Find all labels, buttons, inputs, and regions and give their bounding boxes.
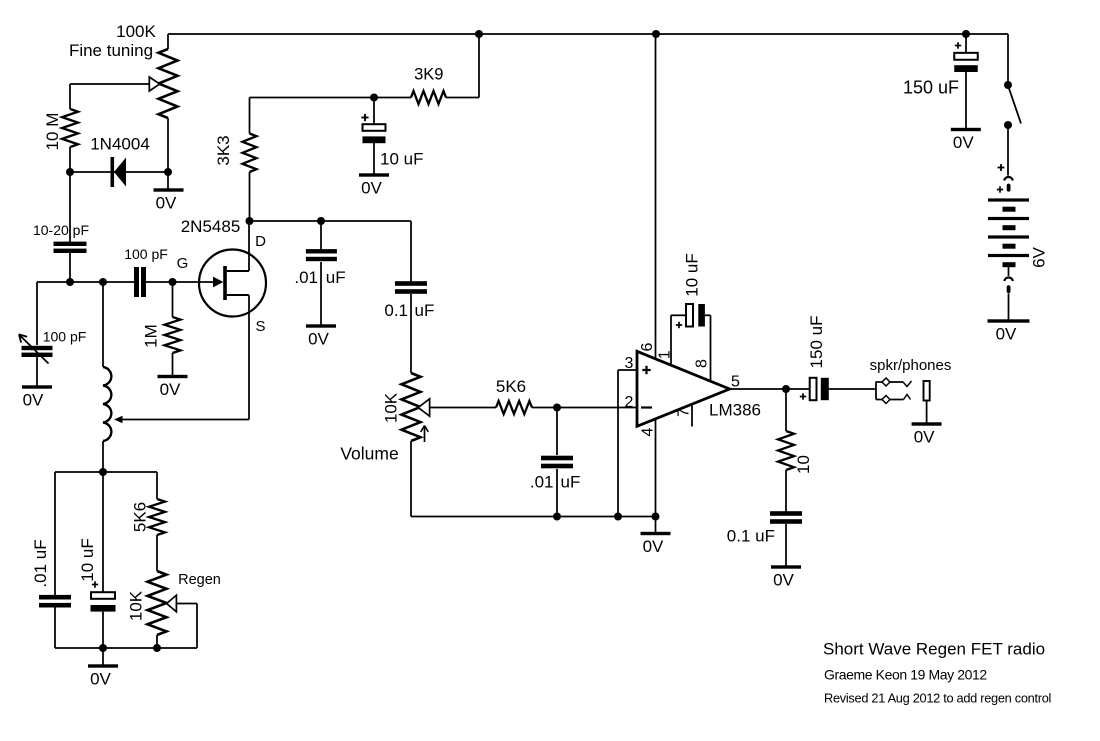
- svg-text:uF: uF: [561, 473, 581, 492]
- svg-text:3K9: 3K9: [414, 66, 443, 84]
- svg-text:Graeme Keon 19 May 2012: Graeme Keon 19 May 2012: [824, 667, 987, 683]
- svg-text:150 uF: 150 uF: [903, 78, 959, 98]
- svg-text:3K3: 3K3: [214, 135, 233, 165]
- svg-text:1M: 1M: [142, 324, 161, 348]
- svg-text:Revised 21 Aug 2012 to add reg: Revised 21 Aug 2012 to add regen control: [824, 691, 1051, 706]
- svg-text:4: 4: [640, 427, 657, 436]
- svg-text:0V: 0V: [914, 428, 935, 447]
- svg-text:0V: 0V: [160, 380, 181, 399]
- svg-text:10 M: 10 M: [43, 113, 62, 151]
- svg-text:uF: uF: [326, 268, 346, 287]
- svg-text:.01: .01: [294, 268, 318, 287]
- svg-text:2: 2: [625, 394, 634, 411]
- svg-text:0V: 0V: [23, 391, 44, 410]
- svg-text:S: S: [255, 318, 265, 335]
- svg-text:5K6: 5K6: [131, 502, 150, 532]
- svg-text:0V: 0V: [996, 325, 1017, 344]
- svg-text:150 uF: 150 uF: [807, 316, 826, 369]
- svg-text:10 uF: 10 uF: [380, 150, 423, 169]
- svg-text:0.1 uF: 0.1 uF: [727, 527, 775, 546]
- svg-text:10: 10: [794, 455, 813, 474]
- svg-text:0V: 0V: [308, 330, 329, 349]
- svg-text:0V: 0V: [953, 133, 974, 152]
- svg-text:2N5485: 2N5485: [181, 217, 241, 236]
- svg-text:1N4004: 1N4004: [90, 135, 150, 154]
- svg-text:LM386: LM386: [709, 401, 761, 420]
- svg-text:.01 uF: .01 uF: [31, 539, 50, 587]
- svg-text:3: 3: [625, 355, 634, 372]
- svg-text:0.1: 0.1: [384, 301, 408, 320]
- svg-text:10 uF: 10 uF: [78, 538, 97, 581]
- svg-text:100 pF: 100 pF: [124, 246, 168, 262]
- svg-text:8: 8: [694, 359, 711, 368]
- svg-text:5K6: 5K6: [496, 377, 526, 396]
- svg-text:100 pF: 100 pF: [43, 329, 87, 345]
- svg-text:10 uF: 10 uF: [683, 253, 702, 296]
- svg-text:Regen: Regen: [178, 572, 221, 588]
- svg-text:0V: 0V: [643, 537, 664, 556]
- svg-text:0V: 0V: [90, 670, 111, 689]
- svg-text:.01: .01: [530, 473, 554, 492]
- svg-text:spkr/phones: spkr/phones: [870, 357, 952, 374]
- svg-text:Volume: Volume: [340, 444, 398, 464]
- svg-text:Fine tuning: Fine tuning: [69, 41, 153, 60]
- svg-text:Short Wave Regen FET radio: Short Wave Regen FET radio: [823, 640, 1045, 659]
- svg-text:5: 5: [731, 374, 740, 391]
- svg-text:uF: uF: [415, 301, 435, 320]
- svg-text:6: 6: [639, 342, 656, 351]
- svg-text:10K: 10K: [127, 590, 146, 621]
- svg-text:1: 1: [657, 350, 674, 359]
- svg-text:100K: 100K: [116, 22, 156, 41]
- svg-text:0V: 0V: [361, 179, 382, 198]
- svg-text:G: G: [177, 255, 189, 272]
- svg-text:0V: 0V: [773, 571, 794, 590]
- svg-text:7: 7: [676, 408, 693, 417]
- svg-text:0V: 0V: [156, 194, 177, 213]
- svg-text:10K: 10K: [382, 392, 401, 423]
- svg-text:6V: 6V: [1030, 246, 1049, 267]
- svg-text:10-20 pF: 10-20 pF: [33, 222, 89, 238]
- svg-text:D: D: [255, 233, 266, 250]
